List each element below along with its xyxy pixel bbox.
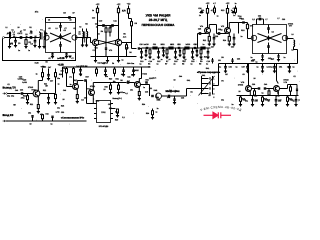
capacitor C20 series [145, 47, 147, 49]
svg-text:10к: 10к [221, 99, 224, 102]
wire [38, 80, 42, 82]
capacitor C52 [32, 117, 34, 121]
svg-text:4,7к: 4,7к [121, 73, 124, 76]
svg-text:Др2: Др2 [271, 58, 274, 61]
capacitor C21 series [161, 47, 163, 49]
svg-text:1н: 1н [238, 15, 240, 18]
resistor R21 [27, 94, 29, 96]
wire bus [219, 63, 298, 65]
wire main ladder [137, 47, 139, 49]
IC pin right [111, 108, 114, 110]
ground [157, 56, 160, 58]
ground [109, 92, 112, 94]
capacitor C22 series [177, 47, 179, 49]
svg-text:«Прием-передача»: «Прием-передача» [197, 71, 221, 74]
capacitor C8b below box [66, 53, 68, 54]
svg-text:VТ2: VТ2 [94, 47, 97, 50]
capacitor C38 [262, 64, 264, 67]
svg-text:C13: C13 [140, 60, 143, 63]
svg-text:1н: 1н [206, 63, 208, 66]
resistor R31 [108, 82, 119, 84]
ground [117, 92, 120, 94]
svg-text:VT8: VT8 [241, 81, 244, 84]
ground [174, 56, 177, 58]
svg-text:1к: 1к [70, 83, 72, 86]
svg-text:1н: 1н [18, 49, 20, 52]
svg-text:4,7к: 4,7к [123, 36, 126, 39]
ground [24, 46, 27, 48]
svg-text:R8: R8 [120, 79, 122, 82]
svg-text:28-29,7 МГЦ: 28-29,7 МГЦ [149, 18, 168, 22]
svg-text:КТ606: КТ606 [288, 22, 293, 25]
svg-text:R9: R9 [199, 63, 201, 66]
svg-text:R29: R29 [109, 107, 112, 110]
svg-text:2н: 2н [177, 58, 179, 61]
svg-text:DА1: DА1 [96, 100, 100, 103]
svg-text:SА1: SА1 [202, 74, 205, 77]
svg-text:VТ6: VТ6 [250, 25, 253, 28]
svg-text:10: 10 [185, 58, 187, 61]
svg-text:0,047мк: 0,047мк [118, 91, 125, 94]
svg-text:R15: R15 [241, 29, 244, 32]
svg-text:С22: С22 [171, 43, 174, 46]
capacitor C12 [105, 37, 107, 49]
svg-text:R34: R34 [146, 112, 149, 115]
svg-text:1н: 1н [257, 65, 259, 68]
svg-text:1н: 1н [256, 61, 258, 64]
svg-text:«Согласование ВЧ»: «Согласование ВЧ» [61, 117, 85, 120]
svg-text:С10: С10 [92, 16, 95, 19]
switch arm [199, 76, 215, 96]
svg-text:С10: С10 [99, 20, 102, 23]
capacitor C33 [268, 25, 270, 28]
svg-text:С44: С44 [169, 89, 172, 92]
svg-text:С21: С21 [153, 43, 156, 46]
svg-text:С51: С51 [130, 89, 133, 92]
svg-text:R25: R25 [61, 104, 64, 107]
svg-text:ПЕРЕНОСНАЯ СХЕМА: ПЕРЕНОСНАЯ СХЕМА [142, 23, 176, 27]
svg-text:10к: 10к [57, 107, 60, 110]
wire [90, 38, 92, 43]
resistor R18 [240, 96, 242, 98]
ground [261, 104, 264, 106]
ground [117, 60, 120, 62]
svg-text:С40: С40 [264, 83, 267, 86]
svg-text:10: 10 [277, 91, 279, 94]
ground [76, 101, 79, 103]
svg-text:0,047мк: 0,047мк [267, 66, 273, 69]
svg-text:SА1: SА1 [187, 79, 190, 82]
switch contact [202, 93, 209, 95]
capacitor C19 [207, 48, 209, 52]
svg-text:15: 15 [35, 35, 37, 38]
capacitor C28 [217, 32, 219, 35]
resistor R33 [42, 119, 44, 121]
svg-text:1к: 1к [143, 86, 145, 89]
wire [228, 33, 230, 37]
watermark arc text [193, 108, 250, 114]
wire [7, 93, 20, 95]
wire [98, 25, 119, 27]
capacitor C65 [145, 81, 147, 83]
svg-text:10: 10 [174, 79, 176, 82]
wire [276, 64, 278, 81]
transistor VT6 [251, 35, 256, 40]
resistor R20 [287, 96, 289, 98]
svg-text:4,7к: 4,7к [153, 77, 156, 80]
svg-text:1н: 1н [57, 57, 59, 60]
svg-text:VТ5: VТ5 [221, 25, 224, 28]
svg-text:10: 10 [161, 43, 163, 46]
capacitor C6 [60, 34, 62, 36]
resistor series ladder [153, 47, 157, 49]
svg-text:КТ315: КТ315 [28, 86, 33, 89]
svg-text:10: 10 [221, 29, 223, 32]
transistor VT9 [274, 86, 280, 92]
capacitor C54 [274, 64, 276, 67]
svg-text:С9: С9 [242, 73, 244, 76]
transistor VT8 [246, 86, 252, 92]
ground [47, 102, 50, 104]
resistor R12 [208, 36, 210, 41]
capacitor C50 [85, 92, 89, 94]
svg-text:0,5: 0,5 [81, 99, 84, 102]
svg-text:R21: R21 [30, 103, 33, 106]
svg-text:С48: С48 [63, 89, 66, 92]
svg-text:VТ3: VТ3 [125, 47, 128, 50]
wire [162, 95, 168, 97]
svg-text:С1: С1 [11, 29, 13, 32]
resistor R25 [55, 87, 57, 94]
ground [14, 45, 17, 47]
switch contact [202, 78, 209, 80]
svg-text:1н: 1н [241, 35, 243, 38]
ground [206, 56, 209, 58]
ground [68, 55, 71, 57]
resistor R9 [200, 48, 202, 50]
svg-text:С33: С33 [282, 18, 285, 21]
ground [81, 44, 84, 46]
svg-text:10к: 10к [105, 75, 108, 78]
svg-text:КР140УД6: КР140УД6 [99, 125, 109, 128]
svg-text:2: 2 [213, 82, 214, 85]
ground [122, 74, 125, 76]
capacitor С43 [295, 96, 297, 100]
ground [246, 70, 249, 72]
wire [76, 37, 91, 39]
ground [261, 59, 264, 61]
svg-text:1н: 1н [203, 43, 205, 46]
wire collector up [37, 81, 39, 92]
svg-text:С32: С32 [258, 15, 261, 18]
wire [95, 46, 97, 57]
svg-text:1н: 1н [199, 14, 201, 17]
ground [261, 70, 264, 72]
IC pin right [111, 113, 114, 115]
resistor R26 [66, 67, 68, 69]
wire feedback [46, 17, 76, 19]
capacitor C37 [247, 64, 249, 67]
resistor R15 [239, 22, 248, 24]
svg-text:С2: С2 [272, 31, 274, 34]
svg-text:1к: 1к [92, 9, 94, 12]
ground [191, 56, 194, 58]
capacitor C23 series [193, 47, 195, 49]
ground [85, 44, 88, 46]
ground [79, 73, 82, 75]
svg-text:1н: 1н [80, 74, 82, 77]
svg-text:С54: С54 [279, 65, 282, 68]
resistor R36 [114, 67, 116, 69]
wire [208, 33, 210, 37]
capacitor C36 [225, 64, 227, 67]
ground [178, 54, 181, 56]
svg-text:0,1: 0,1 [127, 79, 130, 82]
ground [274, 104, 277, 106]
svg-text:ВМ1: ВМ1 [154, 89, 158, 92]
svg-text:10: 10 [254, 77, 256, 80]
svg-text:L8: L8 [292, 49, 294, 52]
svg-text:R12: R12 [203, 39, 206, 42]
svg-text:R32: R32 [131, 74, 134, 77]
microphone BM1 [156, 93, 162, 99]
mixer block outline [46, 23, 76, 53]
svg-text:КТ361: КТ361 [90, 85, 95, 88]
svg-text:R13: R13 [221, 9, 224, 12]
resistor R29 [113, 108, 116, 110]
svg-text:ЭМ: ЭМ [156, 96, 159, 99]
capacitor C1 [15, 38, 17, 41]
svg-text:R24: R24 [59, 73, 62, 76]
svg-text:1к: 1к [268, 100, 270, 103]
svg-text:1н: 1н [293, 65, 295, 68]
transistor VT2 [92, 39, 98, 45]
svg-text:470к: 470к [21, 97, 25, 100]
svg-text:22: 22 [110, 26, 112, 29]
svg-text:С15: С15 [145, 91, 148, 94]
transistor VT1b [72, 35, 77, 40]
svg-text:1н: 1н [122, 58, 124, 61]
svg-text:0,068м: 0,068м [18, 78, 24, 81]
capacitor C35 [268, 43, 270, 46]
svg-text:SА1: SА1 [206, 67, 210, 70]
PA block outline [253, 25, 287, 54]
svg-text:КЗ: КЗ [208, 94, 210, 97]
wire [198, 47, 211, 49]
svg-text:+12В: +12В [58, 64, 64, 67]
svg-text:С26: С26 [198, 7, 201, 10]
svg-text:Вход КЗ: Вход КЗ [3, 114, 14, 117]
svg-text:С37: С37 [241, 65, 244, 68]
svg-text:10к: 10к [113, 80, 116, 83]
svg-text:С50: С50 [84, 96, 87, 99]
svg-text:С41: С41 [254, 99, 257, 102]
wire [44, 36, 45, 38]
wire [170, 95, 186, 97]
svg-text:10: 10 [240, 15, 242, 18]
svg-text:1н: 1н [191, 63, 193, 66]
svg-text:1к: 1к [235, 2, 237, 5]
resistor R32 [138, 92, 140, 96]
wire cross [98, 40, 116, 44]
node output terminal [3, 93, 6, 95]
capacitor C10 [102, 24, 104, 27]
ground [228, 43, 231, 45]
capacitor C18 [192, 48, 194, 52]
svg-text:47к: 47к [35, 11, 38, 14]
capacitor C60 below box [262, 54, 264, 56]
capacitor C5 [60, 23, 62, 26]
svg-text:С47: С47 [48, 66, 51, 69]
svg-text:1н: 1н [217, 15, 219, 18]
svg-text:1н: 1н [145, 58, 147, 61]
svg-text:Выход ТЛ: Выход ТЛ [3, 87, 16, 90]
LED VD1 red watermark [204, 112, 232, 118]
capacitor C66 [151, 95, 153, 97]
svg-text:R26: R26 [62, 67, 65, 70]
svg-text:10: 10 [239, 90, 241, 93]
capacitor C47 [48, 69, 50, 75]
resistor R23 [42, 68, 44, 72]
capacitor C15 [158, 48, 160, 52]
svg-text:ГТ308: ГТ308 [142, 73, 147, 76]
ground [294, 104, 297, 106]
svg-text:5,1: 5,1 [122, 116, 125, 119]
svg-text:R22: R22 [43, 89, 46, 92]
svg-text:R2: R2 [85, 23, 87, 26]
svg-text:2н: 2н [174, 63, 176, 66]
wire [10, 37, 39, 39]
resistor R19 [262, 96, 264, 98]
svg-text:1н: 1н [236, 65, 238, 68]
svg-text:1н: 1н [161, 58, 163, 61]
svg-text:С11: С11 [113, 20, 116, 23]
svg-text:1н: 1н [183, 59, 185, 62]
capacitor С41 [252, 96, 254, 100]
svg-text:1к: 1к [156, 111, 158, 114]
svg-text:L3: L3 [56, 27, 58, 30]
capacitor C63 [232, 61, 234, 63]
transformer T1 [40, 33, 41, 40]
svg-text:R4: R4 [97, 33, 99, 36]
svg-text:3: 3 [213, 87, 214, 90]
ground [47, 78, 50, 80]
wire [141, 84, 150, 86]
svg-text:КТ361Б: КТ361Б [132, 69, 139, 72]
svg-text:1к: 1к [58, 83, 60, 86]
svg-text:R31: R31 [149, 87, 152, 90]
svg-text:УКВ ЧМ РАЦИЯ: УКВ ЧМ РАЦИЯ [146, 13, 171, 17]
wire [44, 33, 47, 35]
svg-text:470: 470 [40, 113, 43, 116]
ground [151, 117, 154, 119]
ground [138, 98, 141, 100]
resistor R13 [227, 5, 229, 9]
IC pin right [111, 118, 114, 120]
capacitor C11 [111, 24, 113, 27]
svg-text:С7: С7 [71, 57, 73, 60]
svg-text:10: 10 [178, 43, 180, 46]
ground [132, 74, 135, 76]
capacitor ladder companion [163, 48, 165, 51]
resistor R37 [290, 85, 292, 87]
node input terminal [3, 120, 6, 122]
svg-text:R30: R30 [109, 78, 112, 81]
capacitor ladder companion [196, 48, 198, 51]
svg-text:C19: C19 [207, 60, 210, 63]
power rail 2 [63, 66, 151, 68]
ground [239, 104, 242, 106]
wire [86, 81, 88, 104]
svg-text:10: 10 [13, 35, 15, 38]
wire [228, 23, 230, 29]
wire [122, 42, 132, 44]
svg-text:10: 10 [104, 88, 106, 91]
resistor R24 [55, 69, 57, 73]
svg-text:1н: 1н [284, 56, 286, 59]
svg-text:С30: С30 [231, 45, 234, 48]
resistor R22 [37, 105, 39, 109]
capacitor C8a below box [52, 53, 54, 54]
capacitor C51 [119, 82, 127, 84]
resistor R5 [109, 26, 111, 28]
ground [165, 56, 168, 58]
svg-text:10: 10 [195, 43, 197, 46]
IC pin left [94, 118, 97, 120]
svg-text:1к: 1к [293, 100, 295, 103]
svg-text:1н: 1н [51, 122, 53, 125]
switch contact [202, 83, 209, 85]
svg-text:С49: С49 [76, 65, 79, 68]
oscillator bottom rail [91, 56, 137, 58]
wire [138, 87, 140, 92]
ground [51, 56, 54, 58]
svg-text:5,1: 5,1 [115, 111, 118, 114]
svg-text:КТ610: КТ610 [284, 79, 289, 82]
svg-text:+12В: +12В [58, 57, 64, 60]
svg-text:1н: 1н [233, 14, 235, 17]
resistor R14 [228, 36, 230, 41]
resistor R1 [25, 38, 27, 40]
svg-text:4,7М: 4,7М [56, 111, 60, 114]
svg-text:R16: R16 [254, 95, 257, 98]
ground [65, 56, 68, 58]
capacitor C46 [20, 92, 22, 95]
wire feed left [3, 38, 76, 60]
resistor R35 [96, 67, 98, 69]
resistor R27 [73, 67, 75, 69]
capacitor С42 [275, 96, 277, 100]
resistor R16 [254, 91, 256, 95]
capacitor C25 [198, 32, 200, 35]
svg-text:1н: 1н [262, 91, 264, 94]
svg-text:C20: C20 [145, 43, 148, 46]
resistor R6b [131, 19, 133, 22]
svg-text:10к: 10к [57, 77, 60, 80]
capacitor C64 [296, 85, 298, 90]
ground [54, 102, 57, 104]
capacitor C55 [289, 64, 291, 67]
capacitor C34 [268, 36, 270, 38]
svg-text:R15: R15 [251, 59, 254, 62]
capacitor C53 [52, 118, 54, 122]
svg-text:1н: 1н [232, 103, 234, 106]
svg-text:R33: R33 [46, 113, 49, 116]
ground [94, 60, 97, 62]
ground [286, 104, 289, 106]
svg-text:R8: R8 [182, 63, 184, 66]
svg-text:С7: С7 [64, 27, 66, 30]
